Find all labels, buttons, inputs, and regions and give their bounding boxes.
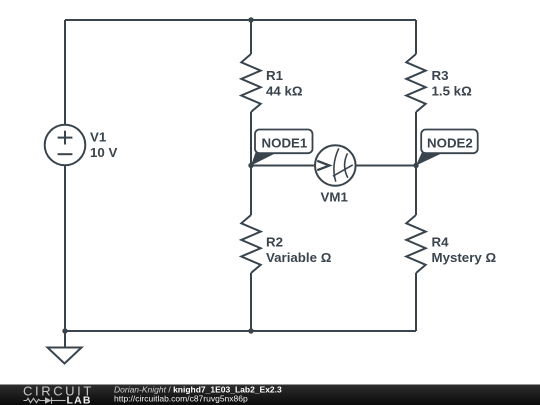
svg-text:1.5 kΩ: 1.5 kΩ bbox=[432, 84, 473, 99]
junction dot: bottom rail / ground bbox=[62, 328, 67, 333]
wire: mid column R1 to NODE1 bbox=[250, 112, 252, 166]
svg-text:VM1: VM1 bbox=[321, 190, 349, 205]
ground bbox=[48, 331, 82, 364]
junction dot: bottom rail / R2 column bbox=[248, 328, 253, 333]
svg-text:Variable Ω: Variable Ω bbox=[266, 250, 332, 265]
svg-text:Mystery Ω: Mystery Ω bbox=[432, 250, 497, 265]
wire: mid column NODE1 to R2 bbox=[250, 166, 252, 216]
resistor R1 44 kOhm bbox=[241, 54, 303, 112]
svg-text:R4: R4 bbox=[432, 235, 450, 250]
resistor R2 Variable bbox=[241, 215, 331, 273]
wire: right column R3 to NODE2 bbox=[415, 112, 417, 166]
svg-text:R2: R2 bbox=[266, 235, 283, 250]
voltmeter VM1 bbox=[315, 145, 356, 204]
svg-text:LAB: LAB bbox=[67, 395, 92, 405]
footer bar bbox=[0, 385, 540, 405]
wire: VM1 right terminal to NODE2 bbox=[356, 165, 416, 167]
node NODE1 flag bbox=[251, 130, 313, 166]
wire: mid column R2 to bottom rail bbox=[250, 273, 252, 331]
svg-text:V1: V1 bbox=[90, 130, 107, 145]
svg-text:NODE2: NODE2 bbox=[427, 136, 473, 151]
wire: right column NODE2 to R4 bbox=[415, 166, 417, 216]
svg-text:R1: R1 bbox=[266, 68, 284, 83]
wire: top rail from V1 column to R3 column bbox=[65, 19, 416, 21]
junction dot: NODE2 bbox=[413, 163, 418, 168]
svg-text:44 kΩ: 44 kΩ bbox=[266, 84, 303, 99]
junction dot: top rail / R1 column bbox=[248, 17, 253, 22]
junction dot: NODE1 bbox=[248, 163, 253, 168]
svg-text:R3: R3 bbox=[432, 68, 449, 83]
resistor R3 1.5 kOhm bbox=[406, 54, 472, 112]
wire: left rail lower (V1 minus terminal down to bottom rail) bbox=[64, 165, 66, 331]
wire: right column top lead into R3 bbox=[415, 20, 417, 54]
wire: left rail upper (top rail down to V1 plus terminal) bbox=[64, 20, 66, 125]
wire: NODE1 to VM1 left terminal bbox=[251, 165, 315, 167]
voltage source V1 bbox=[45, 125, 118, 166]
wire: right column R4 to bottom rail bbox=[415, 273, 417, 331]
node NODE2 flag bbox=[416, 130, 478, 166]
svg-text:http://circuitlab.com/c87ruvg5: http://circuitlab.com/c87ruvg5nx86p bbox=[114, 394, 248, 404]
wire: mid column top lead into R1 bbox=[250, 20, 252, 54]
resistor R4 Mystery bbox=[406, 215, 496, 273]
CircuitLab logo squiggle (wire resistor diode) bbox=[24, 397, 66, 403]
svg-text:10 V: 10 V bbox=[90, 145, 117, 160]
wire: bottom rail bbox=[65, 330, 416, 332]
svg-text:NODE1: NODE1 bbox=[262, 136, 308, 151]
